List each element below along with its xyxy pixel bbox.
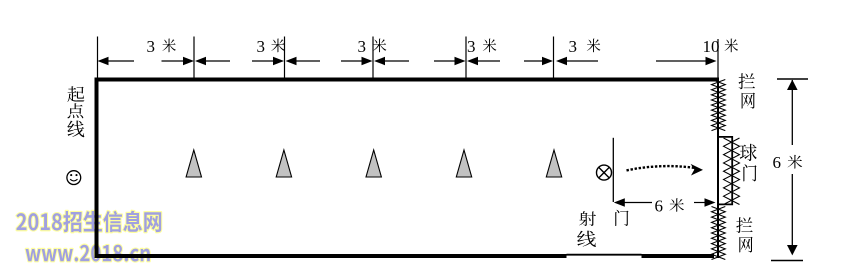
svg-text:10: 10 (703, 37, 720, 56)
dimension tick 5 (465, 37, 467, 78)
dimension arrow right gap1 (162, 60, 185, 62)
vertical dimension lower line (791, 174, 793, 247)
label 射门线 (579, 211, 596, 226)
dimension arrow right gap2 (252, 60, 274, 62)
lower net zigzag (712, 207, 726, 260)
cone 5 (546, 150, 561, 177)
dimension arrow left gap5 (477, 60, 500, 62)
dimension arrow right gap4 (434, 60, 456, 62)
watermark halo line 2 (26, 245, 150, 262)
vertical dimension bottom tick (771, 260, 803, 262)
svg-text:3: 3 (358, 37, 367, 56)
goal box 球门 (717, 137, 732, 205)
shot marker circle-X (597, 165, 612, 180)
field bottom border thin middle (567, 254, 642, 256)
dimension arrow right gap6 (656, 60, 707, 62)
dimension tick 6 (553, 37, 555, 78)
field bottom border left part (95, 254, 567, 258)
dimension arrow left gap4 (384, 60, 409, 62)
label 拦网 (upper) (739, 73, 755, 89)
watermark halo line 1 (16, 211, 161, 232)
start-line label 起点线 (67, 86, 84, 102)
dimension arrow right gap5 (524, 60, 543, 62)
cone 4 (456, 150, 471, 177)
svg-text:3: 3 (257, 37, 266, 56)
dimension tick 7 (right end) (717, 39, 719, 78)
svg-text:3: 3 (569, 37, 578, 56)
dimension tick 4 (372, 37, 374, 78)
6米 horizontal dimension arrows (624, 202, 652, 204)
vertical dimension up arrowhead (787, 80, 798, 90)
field left border (start line) (95, 78, 99, 259)
vertical dimension down arrowhead (787, 245, 798, 255)
field right border line (717, 78, 719, 259)
dimension arrow left gap6 (566, 60, 598, 62)
svg-text:3: 3 (147, 37, 156, 56)
svg-text:3: 3 (467, 37, 476, 56)
shooting line (vertical) (612, 138, 614, 202)
dimension arrow left gap2 (205, 60, 230, 62)
dimension tick 2 (193, 37, 195, 78)
dimension arrow right gap3 (341, 60, 363, 62)
label 拦网 (lower) (736, 217, 752, 233)
goal net zigzag (724, 138, 740, 205)
vertical dimension upper line (791, 80, 793, 145)
vertical dimension top tick (777, 78, 808, 80)
cone 2 (276, 150, 291, 177)
field top border (95, 78, 719, 82)
dimension tick 3 (284, 37, 286, 78)
dimension arrow left gap1 (108, 60, 135, 62)
svg-text:6: 6 (773, 153, 782, 172)
dotted shot arrow (627, 166, 695, 170)
field bottom border right part (642, 254, 715, 258)
dimension arrow left gap3 (296, 60, 321, 62)
dimension tick 1 (97, 37, 99, 78)
smiley face marker (67, 171, 81, 185)
label 球门 (740, 144, 757, 161)
upper net zigzag (712, 80, 726, 131)
cone 3 (366, 150, 381, 177)
watermark text 2018招生信息网 (16, 211, 161, 232)
watermark text www.2018.cn (26, 245, 150, 262)
svg-text:6: 6 (655, 197, 664, 216)
cone 1 (186, 150, 201, 177)
